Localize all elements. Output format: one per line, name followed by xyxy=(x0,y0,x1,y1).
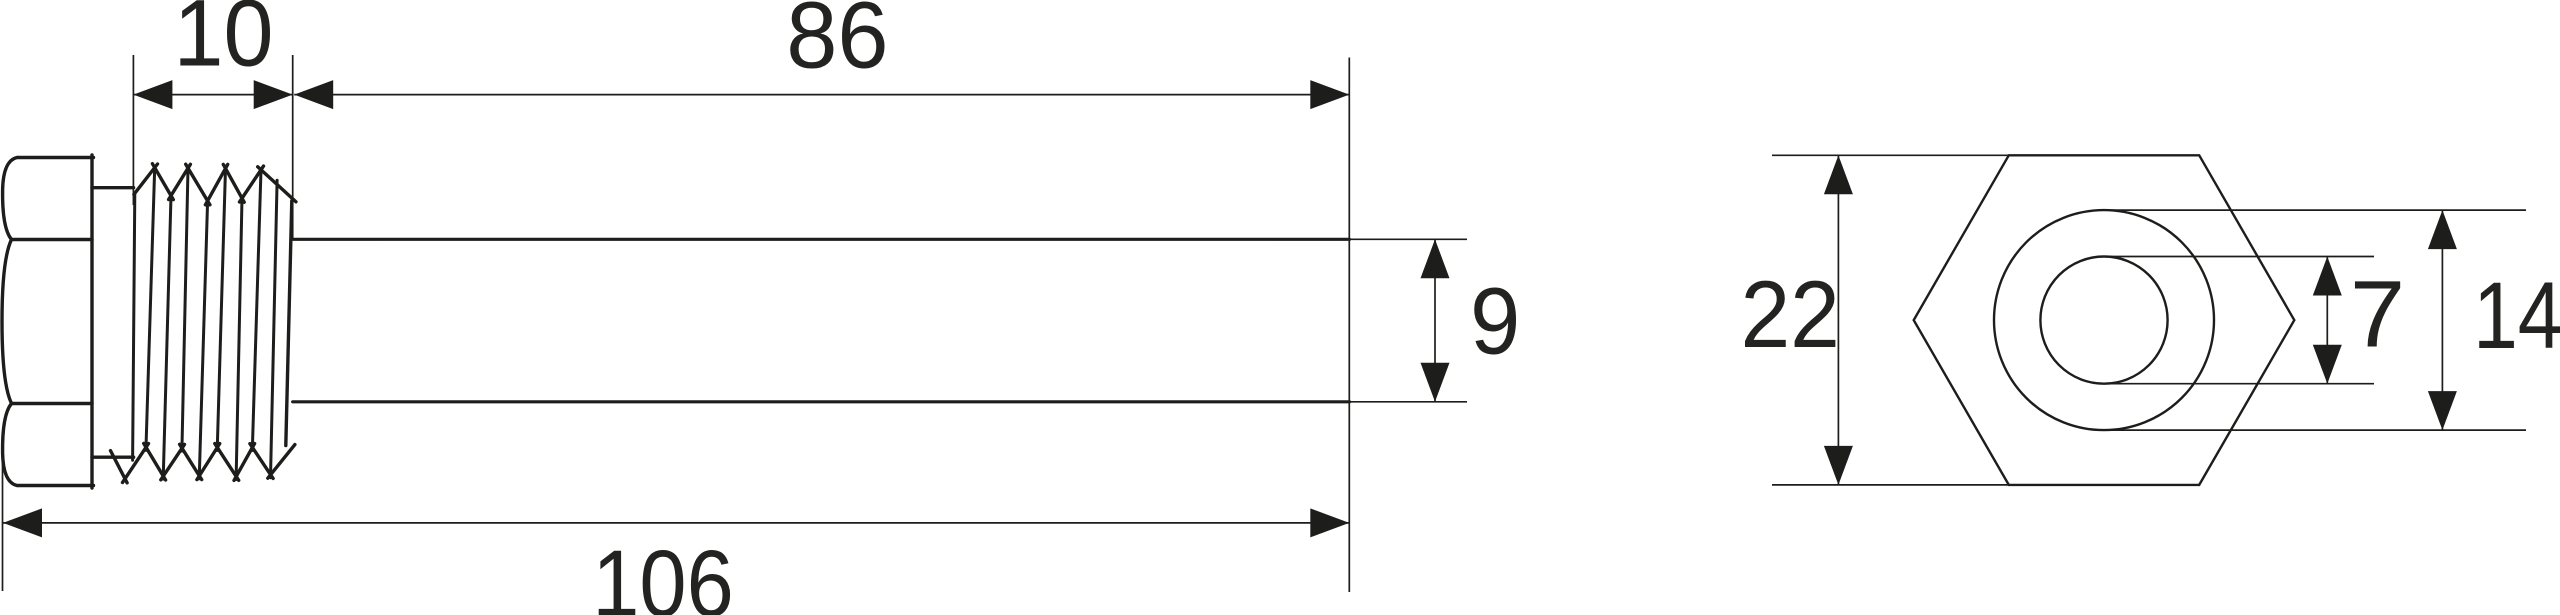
dimension line 10 xyxy=(133,94,292,96)
extension line bottom of dimension 7 xyxy=(2104,383,2374,385)
svg-text:10: 10 xyxy=(174,0,274,87)
thread end edge xyxy=(286,201,292,446)
arrowhead 86 right xyxy=(1310,80,1349,109)
extension line bottom of dimension 9 xyxy=(1350,401,1468,403)
outer circle (14) xyxy=(1994,210,2214,430)
arrowhead 86 left xyxy=(294,80,333,109)
arrowhead 14 top xyxy=(2428,210,2457,249)
arrowhead 10 right xyxy=(254,80,293,109)
svg-text:14: 14 xyxy=(2473,263,2560,369)
arrowhead 7 top xyxy=(2313,257,2342,296)
shoulder (washer face) xyxy=(92,188,134,458)
inner circle (7) xyxy=(2040,257,2167,384)
extension line top of dimension 14 xyxy=(2104,209,2526,211)
hex head side view outline xyxy=(2,155,94,488)
dimension line 106 xyxy=(3,522,1349,524)
dimension line 9 xyxy=(1434,239,1436,401)
arrowhead 9 bottom xyxy=(1421,363,1450,402)
extension line top of dimension 22 xyxy=(1772,154,2009,156)
dimension line 22 xyxy=(1837,155,1839,485)
svg-text:86: 86 xyxy=(786,0,888,89)
extension line left of dimension 10 xyxy=(132,55,134,205)
dimension line 7 xyxy=(2326,257,2328,384)
hex head flat band lines xyxy=(12,240,92,404)
hexagon end view xyxy=(1914,155,2295,485)
arrowhead 106 left xyxy=(3,508,42,537)
arrowhead 14 bottom xyxy=(2428,391,2457,430)
arrowhead 9 top xyxy=(1421,239,1450,278)
svg-text:7: 7 xyxy=(2350,262,2405,368)
arrowhead 22 bottom xyxy=(1824,446,1853,485)
extension line bottom of dimension 14 xyxy=(2104,429,2526,431)
thread crest zigzag (bottom) xyxy=(111,443,295,482)
arrowhead 10 left xyxy=(133,80,172,109)
thread flank lines xyxy=(133,168,278,480)
extension line top of dimension 7 xyxy=(2104,256,2374,258)
extension line left of dimension 106 xyxy=(2,460,4,591)
arrowhead 7 bottom xyxy=(2313,345,2342,384)
arrowhead 106 right xyxy=(1310,508,1349,537)
svg-text:106: 106 xyxy=(592,531,734,615)
extension line at tube end xyxy=(1348,58,1350,593)
dimension line 14 xyxy=(2441,210,2443,430)
extension line top of dimension 9 xyxy=(1350,238,1468,240)
extension line right of dimension 10 xyxy=(292,55,294,238)
arrowhead 22 top xyxy=(1824,155,1853,194)
thread crest zigzag (top) xyxy=(134,164,296,205)
svg-text:9: 9 xyxy=(1470,269,1520,375)
svg-text:22: 22 xyxy=(1740,262,1840,368)
tube (stem) outline xyxy=(293,239,1350,401)
dimension line 86 xyxy=(294,94,1349,96)
extension line bottom of dimension 22 xyxy=(1772,484,2009,486)
